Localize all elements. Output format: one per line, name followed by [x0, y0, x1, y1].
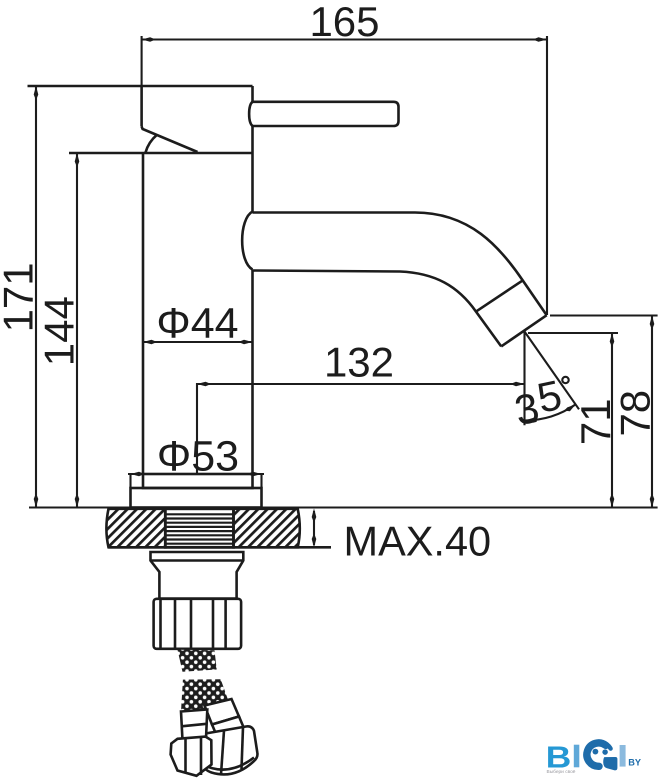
dim max40 counter thickness: [312, 509, 317, 548]
base flange lower tier: [131, 488, 262, 508]
dim 171 total height: [34, 86, 39, 508]
svg-text:144: 144: [35, 296, 82, 366]
dim phi44 body diameter: [143, 340, 253, 345]
countertop section hatched left part: [106, 509, 165, 548]
hose braid upper: [178, 650, 217, 672]
svg-text:BY: BY: [628, 757, 641, 767]
dim phi53 base diameter: [128, 472, 264, 488]
spout: [242, 212, 547, 347]
svg-text:Выбери своё: Выбери своё: [547, 769, 576, 775]
right coupling nut: [201, 726, 258, 774]
handle lever: [249, 102, 398, 126]
threaded shank through countertop: [165, 509, 233, 548]
svg-text:132: 132: [324, 339, 394, 386]
svg-text:78: 78: [612, 390, 659, 437]
dim 78 spout tip height: [550, 316, 658, 508]
dim 71 outlet height: [528, 333, 618, 508]
countertop surface line: [29, 506, 658, 508]
svg-text:165: 165: [309, 0, 379, 45]
right hose fitting: [205, 699, 245, 738]
svg-text:MAX.40: MAX.40: [344, 518, 492, 565]
dim 35 degree outlet angle: [525, 332, 580, 426]
dim 132 spout reach: [197, 382, 525, 474]
logo letter I pale 2: [620, 745, 626, 767]
shank collar trapezoid: [151, 552, 244, 599]
faucet body: [143, 86, 253, 474]
faucet head cap: [28, 86, 253, 153]
left hex nut: [171, 737, 212, 776]
mounting nut: [154, 599, 242, 649]
hose braid lower: [181, 679, 230, 711]
logo letter I pale: [574, 745, 580, 768]
countertop bottom line: [109, 546, 332, 549]
logo letter G smiley: [587, 743, 618, 770]
dim 144 height to body top: [75, 153, 80, 508]
countertop section hatched right part: [234, 509, 300, 548]
base flange upper tier: [143, 474, 253, 488]
svg-text:Φ44: Φ44: [156, 299, 238, 347]
left hose fitting: [181, 710, 207, 741]
dim 165 horizontal overall width: [142, 36, 547, 315]
